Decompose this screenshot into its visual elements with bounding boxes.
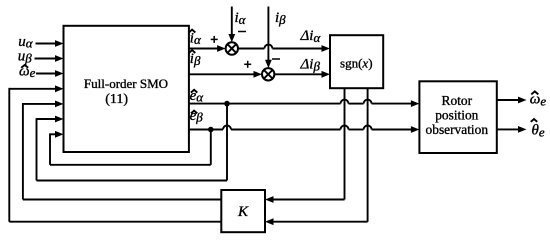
svg-text:K: K [237,204,249,220]
svg-text:iα: iα [190,30,202,47]
svg-text:iβ: iβ [190,51,201,68]
svg-text:(11): (11) [105,92,128,107]
svg-text:θe: θe [532,123,545,140]
svg-text:Full-order SMO: Full-order SMO [84,76,168,91]
svg-text:eα: eα [190,88,205,105]
svg-text:ωe: ωe [19,63,36,80]
svg-text:position: position [435,108,478,123]
svg-text:Rotor: Rotor [442,93,473,108]
svg-text:iα: iα [235,10,247,27]
svg-text:sgn(x): sgn(x) [340,55,373,70]
svg-text:observation: observation [426,122,489,137]
svg-text:Δiα: Δiα [300,28,322,45]
svg-text:Δiβ: Δiβ [300,57,321,74]
svg-text:iβ: iβ [275,10,286,27]
svg-text:eβ: eβ [190,108,204,125]
